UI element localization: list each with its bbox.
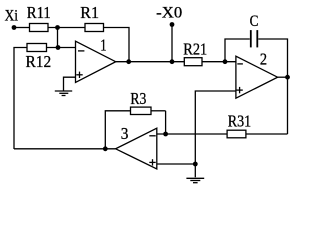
wire R3 right riser (165, 111, 167, 134)
wire R31 to right feedback drop (246, 133, 288, 135)
wire U2 output (278, 76, 288, 78)
junction -X0 on output wire (170, 59, 175, 64)
wire R3 right horizontal (151, 110, 166, 112)
junction node A (55, 25, 60, 30)
junction R1 feedback on output wire (126, 59, 131, 64)
op-amp U1 (76, 41, 116, 82)
resistor R11 (30, 24, 49, 32)
svg-text:R12: R12 (26, 52, 52, 71)
wire node A down to node B (57, 28, 59, 48)
resistor R21 (184, 58, 202, 66)
wire R11 to node A to R1 (48, 27, 85, 29)
wire capacitor right branch down right side (258, 39, 287, 134)
ground for U1 (55, 91, 72, 96)
wire Xi terminal to R11 (14, 27, 30, 29)
wire R21 to op-amp 2 inverting input (202, 61, 236, 63)
svg-text:R31: R31 (228, 111, 251, 130)
svg-text:R21: R21 (183, 40, 207, 59)
junction capacitor tap (223, 59, 228, 64)
junction U3 inverting input (163, 132, 168, 137)
resistor R3 (131, 107, 152, 114)
junction U3 output (103, 146, 108, 151)
svg-text:2: 2 (260, 49, 267, 68)
wire R1 right to feedback drop (104, 28, 130, 62)
svg-text:C: C (250, 13, 259, 30)
svg-text:3: 3 (121, 124, 129, 143)
wire R3 left branch down to U3 output (105, 111, 130, 149)
wire U3 non-inverting input to ground rail (157, 163, 196, 165)
resistor R31 (227, 130, 246, 138)
wire left feedback riser to R12 (14, 48, 27, 150)
resistor R12 (27, 44, 47, 52)
junction node B (56, 45, 61, 50)
capacitor C (251, 30, 257, 47)
wire U1 output to R21 (116, 61, 185, 63)
ground for U2 and U3 (186, 178, 204, 182)
wire R12 to node B to op-amp 1 inverting input (47, 47, 76, 49)
wire capacitor left branch (225, 39, 250, 62)
op-amp U3 (116, 128, 157, 169)
junction ground rail with U3 non-inverting (193, 162, 198, 167)
svg-text:R1: R1 (80, 3, 99, 22)
resistor R1 (85, 24, 104, 32)
svg-text:Xi: Xi (5, 7, 19, 24)
wire U3 inverting input row to R31 (157, 133, 227, 135)
wire U3 output to left feedback bus (14, 148, 116, 150)
svg-text:R3: R3 (130, 89, 146, 108)
junction U2 output (285, 75, 290, 80)
svg-text:-X0: -X0 (156, 5, 182, 22)
svg-text:1: 1 (100, 35, 106, 54)
wire U1 non-inverting input to ground (64, 77, 76, 91)
wire -X0 drop (171, 25, 173, 62)
wire U2 non-inverting input to ground rail (195, 91, 236, 177)
op-amp U2 (236, 56, 278, 98)
node -X0 terminal (170, 22, 175, 27)
node Xi input terminal (12, 25, 17, 30)
svg-text:R11: R11 (27, 3, 51, 22)
